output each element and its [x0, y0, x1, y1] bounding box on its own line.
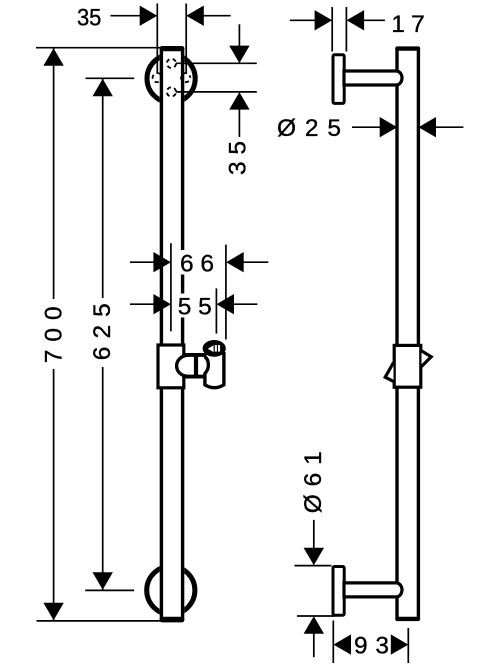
dim 61 bottom tick: [297, 615, 335, 617]
wall flange bottom circle: [147, 566, 195, 614]
700 up arrow: [43, 48, 63, 65]
screw holes (dashed): [153, 59, 191, 97]
dim 17 extension lines: [331, 7, 333, 52]
66 left arrow (points right): [153, 252, 171, 272]
bar top cap (side): [395, 46, 420, 50]
svg-text:Ø25: Ø25: [277, 115, 341, 142]
625 up arrow: [93, 79, 113, 97]
bar bottom cap (side): [395, 617, 420, 621]
dim 55 tails: [130, 303, 155, 305]
bottom wall bracket: [333, 567, 344, 616]
svg-text:17: 17: [391, 11, 425, 38]
arrowheads (left view): [43, 6, 249, 621]
svg-text:35: 35: [224, 141, 251, 175]
holder top ellipse: [203, 340, 226, 357]
dim 700 top tick: [36, 47, 161, 49]
17 left arrow (points right): [315, 10, 333, 30]
dim 700 vertical line: [53, 48, 55, 299]
625 down arrow: [93, 572, 113, 590]
arrowheads (right view): [304, 10, 436, 655]
label 66: [179, 250, 216, 275]
wall flange top circle: [147, 55, 195, 103]
dim 17 tails: [290, 19, 315, 21]
93 right arrow (points right): [391, 634, 409, 654]
connector bottom edge: [183, 375, 207, 379]
dim 625 bottom tick: [85, 589, 134, 591]
label O25: [274, 116, 344, 139]
17 right arrow (points left): [347, 10, 365, 30]
61 down arrow: [304, 548, 324, 566]
66 right arrow (points left): [226, 252, 244, 272]
55 left arrow (points right): [153, 294, 171, 314]
dim 93 extension lines: [332, 621, 334, 664]
bar body (side view): [395, 46, 420, 620]
35 top left arrow (points right): [140, 6, 158, 26]
slider right lug: [422, 351, 432, 367]
700 down arrow: [43, 603, 63, 621]
dim 35 top extension lines: [156, 4, 158, 74]
25 right arrow (points left): [419, 117, 437, 137]
35 top right arrow (points left): [186, 6, 204, 26]
dim 66 extension lines: [170, 243, 172, 331]
connector divider: [194, 355, 198, 377]
slider (side view): [394, 345, 421, 387]
55 right arrow (points left): [217, 294, 235, 314]
dim 61 line upper: [313, 520, 315, 549]
dim 61 top tick: [294, 565, 331, 567]
dim 35 top: leader and tails: [111, 15, 142, 17]
top wall bracket: [333, 55, 344, 104]
connector white area: [177, 355, 206, 377]
svg-text:Ø61: Ø61: [300, 451, 327, 513]
dim 700 bottom tick: [37, 620, 161, 622]
35 vert up arrow: [229, 92, 249, 110]
slider body: [158, 345, 184, 388]
bar body (front view): [160, 46, 185, 622]
holder cylinder body: [205, 352, 224, 388]
label 55: [178, 294, 214, 318]
dim 25 leader and tail: [352, 126, 381, 128]
dim 35 vertical line: [238, 24, 240, 47]
35 vert down arrow: [229, 46, 249, 64]
holder cone white marks: [208, 345, 214, 352]
svg-text:93: 93: [354, 633, 389, 660]
61 up arrow: [304, 616, 324, 634]
dim 61 line lower: [313, 633, 315, 657]
dim 35 vertical (hole spacing) extension lines: [176, 62, 257, 64]
svg-text:35: 35: [77, 5, 102, 32]
top arm: [344, 71, 402, 85]
25 left arrow (points right): [380, 117, 398, 137]
connector top edge: [184, 353, 207, 357]
93 left arrow (points left): [334, 634, 352, 654]
bar bottom cap: [160, 617, 185, 623]
slider left lever: [385, 363, 393, 382]
release lever bulge: [177, 355, 189, 376]
bottom arm: [344, 583, 402, 597]
dim 625 vertical line: [102, 79, 104, 298]
dim 55 right extension line: [215, 288, 217, 333]
dim 66 tails: [130, 261, 155, 263]
svg-text:625: 625: [89, 303, 116, 360]
bar top cap: [160, 46, 185, 51]
dim 625 top tick: [86, 77, 135, 79]
svg-text:700: 700: [40, 306, 67, 363]
